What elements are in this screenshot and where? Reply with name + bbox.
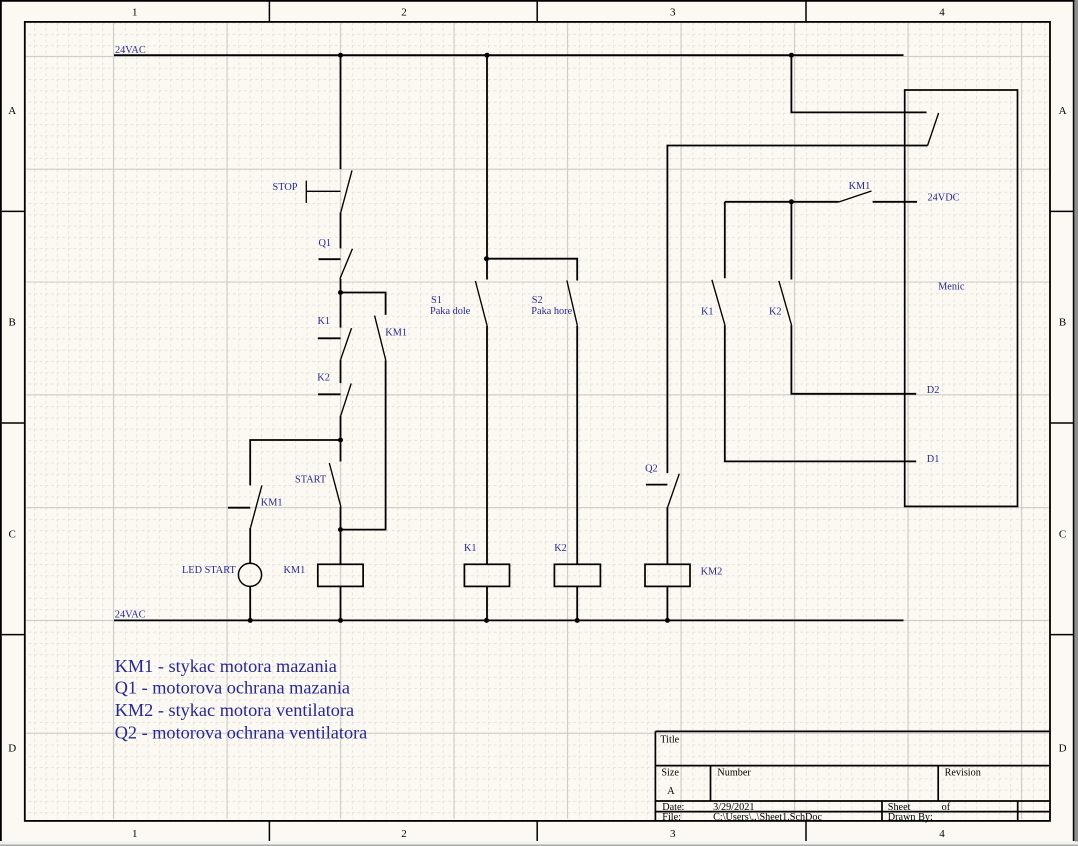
svg-text:24VAC: 24VAC	[115, 610, 146, 621]
svg-text:LED START: LED START	[182, 565, 236, 576]
svg-text:S2: S2	[532, 295, 543, 306]
svg-text:B: B	[9, 317, 16, 329]
svg-text:Revision: Revision	[945, 767, 981, 778]
svg-text:Paka hore: Paka hore	[531, 306, 572, 317]
svg-text:2: 2	[401, 828, 407, 840]
svg-text:Size: Size	[661, 767, 679, 778]
svg-text:KM2: KM2	[701, 567, 723, 578]
svg-text:Paka dole: Paka dole	[430, 306, 471, 317]
svg-text:D1: D1	[927, 454, 940, 465]
svg-text:A: A	[1059, 105, 1067, 117]
svg-text:KM2 - stykac motora ventilator: KM2 - stykac motora ventilatora	[115, 700, 354, 720]
svg-text:1: 1	[132, 828, 138, 840]
svg-text:Q2 - motorova ochrana ventilat: Q2 - motorova ochrana ventilatora	[115, 723, 368, 743]
svg-text:Menic: Menic	[938, 282, 965, 293]
svg-text:A: A	[667, 786, 675, 797]
svg-text:KM1 - stykac motora mazania: KM1 - stykac motora mazania	[115, 656, 337, 676]
svg-text:3: 3	[670, 828, 676, 840]
svg-text:File:: File:	[662, 812, 681, 823]
svg-text:K2: K2	[554, 543, 567, 554]
svg-text:S1: S1	[431, 295, 442, 306]
svg-text:24VDC: 24VDC	[928, 192, 960, 203]
svg-text:K1: K1	[318, 316, 331, 327]
svg-text:Title: Title	[660, 735, 679, 746]
svg-text:STOP: STOP	[273, 182, 298, 193]
svg-text:24VAC: 24VAC	[115, 45, 146, 56]
svg-text:Q1 - motorova ochrana mazania: Q1 - motorova ochrana mazania	[115, 678, 350, 698]
svg-text:K1: K1	[464, 543, 477, 554]
svg-text:Q1: Q1	[319, 238, 332, 249]
svg-text:A: A	[8, 105, 16, 117]
svg-text:Drawn By:: Drawn By:	[888, 812, 933, 823]
svg-text:D: D	[1059, 742, 1067, 754]
svg-text:C: C	[1059, 528, 1066, 540]
svg-text:KM1: KM1	[385, 327, 407, 338]
svg-text:START: START	[295, 474, 327, 485]
svg-text:Q2: Q2	[645, 464, 658, 475]
svg-text:KM1: KM1	[849, 181, 871, 192]
svg-text:D2: D2	[927, 385, 940, 396]
svg-text:K2: K2	[769, 307, 782, 318]
svg-text:K2: K2	[317, 373, 330, 384]
svg-text:4: 4	[939, 828, 945, 840]
svg-text:D: D	[8, 742, 16, 754]
svg-text:B: B	[1059, 317, 1066, 329]
svg-text:KM1: KM1	[261, 497, 283, 508]
svg-text:4: 4	[939, 6, 945, 18]
svg-text:C: C	[9, 528, 16, 540]
svg-text:2: 2	[401, 6, 407, 18]
svg-text:KM1: KM1	[284, 565, 306, 576]
svg-text:3: 3	[670, 6, 676, 18]
svg-text:Number: Number	[717, 767, 751, 778]
svg-text:K1: K1	[701, 307, 714, 318]
svg-text:of: of	[942, 802, 951, 813]
svg-text:C:\Users\..\Sheet1.SchDoc: C:\Users\..\Sheet1.SchDoc	[713, 812, 822, 823]
svg-text:1: 1	[132, 6, 138, 18]
